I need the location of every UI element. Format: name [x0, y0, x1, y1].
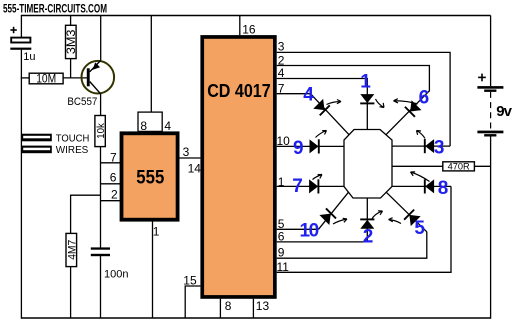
wire 4017 pin9 to LED5	[277, 232, 427, 258]
IC U2 CD4017	[202, 37, 275, 297]
LED D1	[360, 94, 374, 103]
wire 555 pin 7	[101, 162, 121, 164]
wire 10M to base	[63, 77, 87, 79]
wire LED10 diagonal	[319, 192, 349, 229]
svg-text:555-TIMER-CIRCUITS.COM: 555-TIMER-CIRCUITS.COM	[3, 2, 107, 16]
svg-text:10: 10	[277, 134, 291, 148]
svg-text:2: 2	[111, 187, 118, 201]
wire collector to 10k	[100, 94, 102, 116]
wire 4017 pin 16 to rail	[239, 16, 241, 36]
arrow LED2	[372, 211, 383, 220]
wire left rail upper	[20, 15, 22, 37]
LED D6	[405, 100, 422, 117]
svg-text:3: 3	[183, 145, 190, 159]
svg-text:BC557: BC557	[67, 96, 97, 108]
svg-text:5: 5	[414, 218, 425, 239]
svg-text:3: 3	[434, 138, 445, 159]
wire 4017 pin3 to LED3	[277, 52, 450, 146]
wire battery top	[490, 16, 492, 87]
wire 3M3 top	[70, 16, 72, 26]
wire left rail lower	[20, 49, 22, 319]
wire bottom rail	[21, 317, 490, 319]
wire 470R right	[474, 165, 490, 167]
svg-text:1: 1	[278, 175, 285, 189]
svg-text:9: 9	[278, 245, 285, 259]
wire 100n to ground rail	[100, 256, 102, 318]
svg-text:1: 1	[153, 224, 160, 238]
resistor R1 3M3	[64, 25, 78, 58]
svg-text:10: 10	[300, 220, 320, 241]
wire 4017 pin1 to LED7	[277, 185, 344, 187]
wire LED8 to ring	[392, 185, 451, 187]
svg-text:10M: 10M	[36, 74, 56, 86]
wire 555 pin 1 to ground	[152, 222, 154, 319]
resistor R2 10M	[29, 73, 63, 85]
svg-text:470R: 470R	[448, 161, 471, 171]
wire 555 pin 6	[101, 183, 121, 185]
wire 555 pin 2	[101, 200, 121, 202]
wire LED5 diagonal	[386, 192, 427, 232]
svg-text:WIRES: WIRES	[56, 144, 89, 156]
svg-text:555: 555	[136, 168, 164, 189]
svg-text:4: 4	[303, 85, 314, 106]
wire LED3 to ring	[392, 145, 450, 147]
arrow LED9	[316, 131, 327, 138]
svg-text:6: 6	[419, 88, 430, 109]
wire 4017 pin10 to LED9	[277, 145, 344, 147]
wire emitter to rail	[100, 16, 102, 61]
wire LED6 diagonal	[386, 91, 429, 135]
arrow LED8	[411, 172, 430, 182]
arrow LED4	[327, 100, 342, 105]
node base wire left	[21, 77, 30, 79]
LED D2	[360, 219, 374, 228]
arrow LED10	[333, 218, 347, 224]
LED D7	[309, 179, 318, 193]
svg-text:8: 8	[438, 178, 449, 199]
wire battery bottom	[490, 136, 492, 318]
wire top rail	[21, 15, 490, 17]
svg-text:TOUCH: TOUCH	[56, 132, 90, 144]
op-amp U1 555 timer	[122, 133, 178, 219]
wire 4017 pin4 to LED1	[277, 79, 368, 130]
LED D4	[313, 99, 330, 116]
arrow LED3	[417, 131, 426, 139]
svg-text:15: 15	[183, 273, 197, 287]
transistor Q1 BC557	[82, 61, 115, 94]
wire 4M7 branch	[71, 194, 101, 196]
LED D5	[404, 210, 421, 227]
touch plate upper	[21, 134, 52, 142]
svg-text:4M7: 4M7	[66, 240, 78, 260]
arrow LED1	[376, 99, 385, 108]
svg-text:CD 4017: CD 4017	[207, 81, 271, 101]
svg-text:100n: 100n	[104, 269, 128, 281]
wire 555 pins 8 4 to rail	[150, 16, 152, 113]
wire 4017 pin2 to LED6	[277, 66, 430, 92]
svg-text:6: 6	[278, 230, 285, 244]
svg-text:4: 4	[278, 66, 285, 80]
capacitor C2 100n	[91, 247, 110, 256]
LED D3	[425, 139, 434, 153]
svg-text:10k: 10k	[96, 122, 107, 138]
svg-text:7: 7	[292, 176, 303, 197]
arrow LED6	[394, 99, 418, 104]
wire 4017 pin7 to LED4	[277, 93, 311, 95]
resistor R5 470R	[443, 161, 475, 171]
node 555 pins 8 4 box	[138, 112, 162, 131]
svg-text:4: 4	[164, 119, 171, 133]
svg-text:13: 13	[256, 299, 270, 313]
svg-text:11: 11	[277, 260, 290, 274]
svg-text:14: 14	[188, 161, 202, 175]
svg-text:9: 9	[293, 138, 304, 159]
wire 470R left	[392, 165, 443, 167]
touch plate lower	[21, 146, 52, 154]
wire LED4 diagonal	[311, 94, 350, 135]
arrow LED5	[389, 218, 402, 224]
svg-text:1u: 1u	[23, 51, 35, 63]
svg-text:7: 7	[278, 82, 285, 96]
svg-text:16: 16	[242, 22, 256, 36]
svg-text:6: 6	[110, 170, 117, 184]
arrow LED7	[313, 175, 323, 180]
LED D9	[310, 139, 319, 153]
resistor R4 4M7	[66, 233, 78, 266]
svg-text:8: 8	[225, 299, 232, 313]
wire 4017 pin 13 stub	[252, 299, 254, 318]
svg-text:8: 8	[140, 119, 147, 133]
svg-text:3: 3	[278, 40, 285, 54]
wire 4017 pin 15	[185, 286, 200, 318]
battery B1 9v	[477, 74, 503, 137]
wire 4M7 top	[70, 195, 72, 234]
svg-text:1: 1	[360, 72, 371, 93]
wire 4M7 bottom	[70, 267, 72, 318]
wire 555 pin3 to 4017 pin14	[179, 157, 200, 159]
svg-text:9v: 9v	[496, 103, 512, 120]
svg-text:7: 7	[110, 151, 117, 165]
capacitor C1 1u	[10, 27, 31, 50]
wire 3M3 bottom	[70, 58, 72, 78]
wire 4017 pin11 to LED8	[277, 186, 451, 272]
resistor R3 10k	[95, 116, 107, 147]
LED D8	[425, 179, 434, 193]
svg-text:2: 2	[363, 227, 374, 248]
wire 4017 pin5 to LED10	[277, 228, 319, 230]
wire 4017 pin 8 stub	[219, 299, 221, 318]
wire 4017 pin6 to LED2	[277, 198, 368, 242]
node LED ring octagon	[344, 130, 392, 199]
wire 10k to 100n	[100, 146, 102, 247]
svg-text:3M3: 3M3	[64, 29, 78, 54]
LED D10	[319, 208, 336, 225]
